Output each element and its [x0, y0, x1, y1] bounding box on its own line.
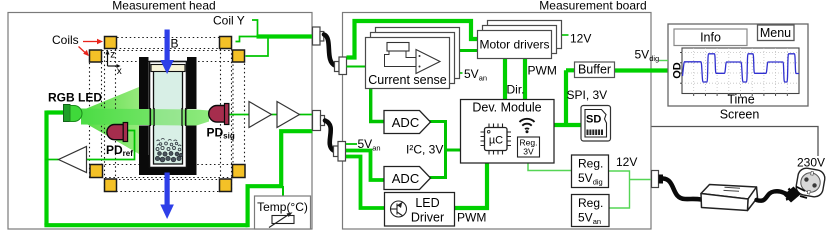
cuvette wall lines over beam — [150, 108, 185, 126]
svg-text:ADC: ADC — [392, 171, 419, 186]
coil Y dotted frame outer — [90, 51, 245, 178]
SCREEN-SECTION — [635, 24, 809, 122]
red arrow to inner coil square — [79, 47, 89, 57]
cable head-to-board bottom — [325, 121, 334, 151]
svg-text:LED: LED — [415, 196, 439, 210]
block Reg 3V — [518, 137, 540, 157]
cuvette cap — [151, 65, 185, 72]
HEAD-SECTION — [8, 0, 325, 229]
power cable board to brick — [663, 179, 701, 200]
svg-text:B: B — [171, 37, 179, 51]
wire LED driver to Dev Module — [454, 164, 487, 209]
wire connector to ADC2 — [346, 151, 384, 181]
SD card — [581, 106, 611, 142]
enclosure Measurement board — [343, 13, 652, 230]
svg-text:SD: SD — [586, 114, 601, 126]
wire PDsig to amp1 — [228, 114, 249, 116]
wire 12V label tick — [562, 34, 569, 36]
connector board top — [335, 57, 347, 75]
magnetic field arrow (bottom) — [160, 173, 174, 220]
cuvette inner wall — [154, 66, 183, 165]
block Reg 5Vdig — [572, 155, 609, 188]
block LED driver — [385, 193, 455, 227]
coil square top-left outer — [105, 37, 117, 49]
enclosure Measurement head — [8, 13, 312, 230]
coil Y dotted frame inner — [102, 62, 234, 165]
svg-text:I²C, 3V: I²C, 3V — [406, 143, 443, 157]
cell speckles — [155, 152, 182, 162]
coil square top-left inner — [90, 50, 102, 62]
wire Motor drivers Dir to Dev Module — [503, 59, 507, 101]
svg-text:PWM: PWM — [457, 211, 486, 225]
microcontroller uC chip — [481, 124, 512, 155]
block Buffer — [575, 62, 615, 78]
wire Current sense to Motor drivers — [449, 49, 478, 52]
wire 5Van label tick — [456, 72, 463, 74]
wire bottom bus — [44, 223, 247, 227]
svg-text:Temp(°C): Temp(°C) — [257, 200, 308, 214]
enclosure Screen — [668, 24, 808, 106]
red arrow to outer coil square — [83, 39, 103, 45]
svg-text:Dir.: Dir. — [507, 83, 525, 97]
beam tint inside liquid — [154, 109, 182, 125]
OD trace — [683, 54, 800, 82]
PSU-SECTION — [652, 127, 827, 211]
svg-text:z: z — [110, 50, 115, 61]
shunt resistor symbol — [387, 43, 409, 52]
connector head bottom — [313, 111, 325, 131]
wire Dev Module to Reg 5Vdig — [528, 164, 572, 171]
mains plug — [784, 187, 808, 203]
svg-text:Reg.: Reg. — [578, 157, 603, 171]
BOARD-SECTION — [324, 0, 668, 229]
coil X dotted frame inner — [116, 49, 221, 180]
wire amp-ref output — [45, 159, 59, 161]
svg-text:Reg.: Reg. — [578, 196, 603, 210]
svg-text:Coil Y: Coil Y — [213, 14, 245, 28]
plot y ticks — [680, 53, 682, 84]
light beam through cuvette — [81, 109, 209, 126]
axis z/x icon — [108, 54, 118, 66]
brick label lines — [724, 187, 741, 191]
svg-text:Coils: Coils — [52, 33, 79, 47]
op-amp sig 2 — [277, 102, 300, 128]
op-amp in current sense — [416, 50, 440, 74]
button Menu — [758, 25, 795, 41]
svg-text:Time: Time — [727, 93, 754, 107]
coil square bottom-right inner — [233, 165, 246, 178]
mains boundary line — [652, 127, 819, 157]
svg-text:3V: 3V — [523, 147, 534, 157]
svg-text:Measurement head: Measurement head — [112, 0, 215, 13]
wire RGB LED to left bus — [47, 110, 65, 114]
power cable brick to plug — [757, 191, 789, 200]
svg-text:x: x — [117, 66, 122, 77]
svg-text:Current sense: Current sense — [368, 73, 447, 87]
wire Current sense to ADC1 — [371, 88, 384, 122]
coil square bottom-right outer — [220, 179, 232, 192]
wire connector to LED driver — [346, 157, 385, 209]
connector board bottom — [334, 142, 346, 162]
photodiode PDref — [107, 123, 128, 142]
wire Buffer to screen — [614, 68, 668, 72]
svg-text:OD: OD — [672, 62, 684, 79]
magnet core bar right upper — [187, 57, 197, 109]
plot axis ticks — [694, 94, 788, 97]
svg-text:12V: 12V — [570, 32, 591, 46]
magnet core bar left upper — [139, 57, 149, 109]
plot frame — [682, 48, 799, 94]
cuvette holder bottom slab — [139, 155, 197, 175]
wire PDref to amp-ref — [86, 131, 135, 160]
block ADC1 — [384, 111, 431, 134]
svg-text:µC: µC — [489, 135, 503, 147]
power brick — [701, 185, 758, 211]
op-amp ref (left pointing) — [59, 147, 87, 173]
wire bottom-right riser — [248, 131, 313, 227]
wire Coil Y leader — [252, 20, 258, 35]
wifi icon — [520, 119, 535, 129]
wire Motor drivers PWM to Dev Module — [523, 59, 527, 101]
svg-text:Info: Info — [700, 31, 721, 45]
magnet core bar right lower — [187, 126, 197, 176]
svg-text:ADC: ADC — [392, 115, 419, 130]
plot grid — [682, 48, 799, 94]
svg-text:12V: 12V — [616, 155, 637, 169]
block ADC2 — [384, 167, 431, 190]
magnetic field arrow B (top) — [160, 30, 174, 75]
coil square bottom-left outer — [105, 179, 117, 192]
block Motor drivers (stacked) — [478, 21, 562, 59]
temp sensor box — [255, 196, 311, 229]
svg-text:Dev. Module: Dev. Module — [472, 101, 541, 115]
wire ADC bus to Dev Module — [430, 122, 462, 178]
photodiode PDsig — [209, 104, 229, 125]
svg-text:Screen: Screen — [720, 108, 760, 122]
wire coil-Y square riser — [246, 39, 269, 57]
wire temp sensor leader — [282, 186, 284, 197]
connector board power — [652, 171, 664, 188]
coil square top-right outer — [220, 37, 232, 49]
wire Dev Module to Buffer and SD — [554, 70, 583, 127]
block Reg 5Van — [572, 195, 610, 227]
wire amp1 to amp2 — [272, 114, 278, 116]
svg-text:Motor drivers: Motor drivers — [479, 38, 549, 52]
svg-text:5Vdig: 5Vdig — [635, 48, 660, 64]
transistor symbol in LED driver — [391, 201, 407, 217]
wire 5Van stub at connector — [346, 143, 357, 145]
svg-text:PWM: PWM — [528, 64, 557, 78]
RGB LED — [64, 105, 83, 122]
cuvette outer wall — [150, 62, 187, 168]
wire 12V rail to regulators — [608, 171, 652, 208]
block Dev Module — [461, 100, 555, 164]
wire 5Vdig leader — [659, 60, 668, 62]
svg-text:Measurement board: Measurement board — [539, 0, 646, 13]
coil square top-right inner — [233, 50, 245, 62]
wire left vertical bus — [44, 111, 48, 226]
magnet core bar left lower — [139, 126, 149, 176]
cable head-to-board top — [324, 35, 335, 66]
svg-text:Menu: Menu — [760, 26, 791, 40]
wire top supply to Motor drivers — [347, 21, 479, 58]
coil square bottom-left inner — [90, 165, 103, 178]
wire amp2 to connector — [300, 114, 314, 116]
block Current sense (stacked) — [366, 28, 460, 89]
button Info — [674, 29, 747, 46]
svg-text:230V: 230V — [797, 156, 825, 170]
shunt wiring loop — [385, 51, 417, 67]
op-amp sig 1 — [249, 102, 272, 128]
svg-text:Driver: Driver — [411, 211, 444, 225]
mains socket — [795, 167, 826, 198]
coil X dotted frame outer — [105, 38, 232, 192]
svg-text:Buffer: Buffer — [578, 63, 611, 77]
wire connector to Current sense — [347, 66, 367, 68]
wire coil-X square to Coil Y net — [236, 37, 258, 42]
svg-text:SPI, 3V: SPI, 3V — [567, 88, 608, 102]
light cone from RGB LED — [82, 87, 140, 154]
svg-text:RGB LED: RGB LED — [48, 91, 102, 105]
connector head top — [313, 27, 324, 45]
wire Coil Y thick to connector — [257, 34, 313, 38]
